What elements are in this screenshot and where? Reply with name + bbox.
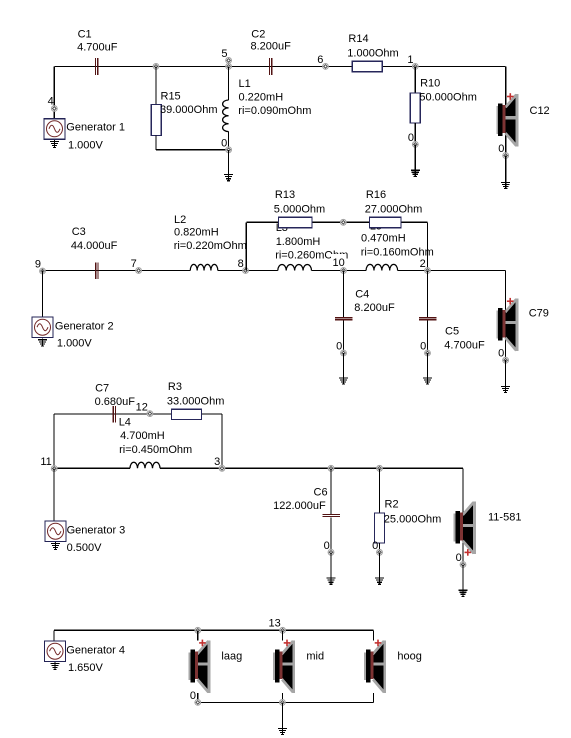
value label 122.000uF (C6): [273, 500, 326, 512]
node 0 under C6: [328, 549, 334, 555]
svg-text:1.000Ohm: 1.000Ohm: [347, 48, 398, 60]
svg-text:Generator 3: Generator 3: [67, 525, 126, 537]
value label 8.200uF (C2): [251, 41, 292, 53]
node label 8: [238, 258, 244, 270]
ground under generator 3: [51, 542, 60, 550]
label Generator 3: [67, 525, 126, 537]
svg-text:0.680uF: 0.680uF: [95, 396, 136, 408]
svg-text:C3: C3: [72, 226, 86, 238]
label C5: [445, 326, 459, 338]
value label 0.680uF (C7): [95, 396, 136, 408]
resistor R14: [352, 61, 382, 71]
wire hoog top: [372, 630, 374, 640]
svg-text:1.650V: 1.650V: [68, 662, 104, 674]
resistor R3: [172, 409, 202, 419]
svg-text:5.000Ohm: 5.000Ohm: [274, 204, 325, 216]
wire speaker C79 riser: [505, 271, 507, 361]
svg-text:50.000Ohm: 50.000Ohm: [419, 91, 476, 103]
label R15: [161, 91, 181, 103]
svg-text:1: 1: [407, 54, 413, 66]
label L4: [119, 417, 131, 429]
value label 1.000V (gen2): [57, 338, 93, 350]
svg-text:C6: C6: [314, 486, 328, 498]
inductor L1: [223, 100, 229, 132]
svg-text:ri=0.160mOhm: ri=0.160mOhm: [361, 246, 434, 258]
node 0 under C12: [503, 153, 509, 159]
label 11-581: [488, 512, 521, 524]
node 3: [219, 465, 225, 471]
value label 4.700mH (L4): [120, 430, 165, 442]
wire row3 main horizontal net: [54, 467, 463, 469]
svg-text:4.700uF: 4.700uF: [444, 339, 485, 351]
resistor R15: [151, 105, 161, 136]
label mid: [306, 651, 324, 663]
svg-text:12: 12: [136, 401, 148, 413]
wire C6 bottom: [330, 517, 332, 552]
svg-text:27.000Ohm: 27.000Ohm: [365, 204, 422, 216]
svg-text:0.500V: 0.500V: [67, 542, 103, 554]
node 7: [136, 268, 142, 274]
speaker laag: [189, 640, 211, 693]
svg-text:R10: R10: [420, 78, 440, 90]
label Generator 4: [66, 645, 125, 657]
node 8: [243, 268, 249, 274]
wire C5 bottom: [427, 321, 429, 353]
node label 0 (C5): [420, 341, 426, 353]
svg-text:Generator 4: Generator 4: [66, 645, 125, 657]
value label 1.800mH (L3): [276, 236, 321, 248]
wire C4 bottom: [343, 321, 345, 353]
label L1: [239, 78, 251, 90]
node label 0 (R10 bottom): [408, 132, 414, 144]
svg-text:C1: C1: [78, 28, 92, 40]
node 0 under laag: [195, 700, 201, 706]
svg-text:11-581: 11-581: [488, 512, 521, 524]
label hoog: [397, 651, 421, 663]
svg-text:33.000Ohm: 33.000Ohm: [167, 396, 224, 408]
value label 44.000uF (C3): [71, 240, 118, 252]
node label 11: [40, 456, 51, 468]
value label ri=0.260mOhm (L3): [275, 249, 348, 261]
wire R2 bottom: [379, 543, 381, 552]
label C3: [72, 226, 86, 238]
value label 25.000Ohm (R2): [384, 514, 441, 526]
node 0 under 11-581: [460, 562, 466, 568]
node label 9: [35, 259, 41, 271]
node label 6: [317, 54, 323, 66]
svg-text:39.000Ohm: 39.000Ohm: [160, 104, 217, 116]
generator U4 Generator 4: [45, 641, 66, 662]
ground under C5: [423, 377, 432, 385]
wire R15 bottom to node 0: [156, 136, 229, 150]
svg-text:ri=0.220mOhm: ri=0.220mOhm: [174, 240, 247, 252]
capacitor C7: [113, 406, 116, 423]
ground under generator 2: [38, 338, 47, 346]
wire to ground (11-581): [462, 565, 464, 591]
node label 2: [420, 258, 426, 270]
node label 4: [48, 96, 54, 108]
node label 0 (C12 bottom): [498, 143, 504, 155]
resistor R13: [279, 217, 313, 227]
wire gen2 riser: [42, 271, 44, 318]
wire to ground (row4): [281, 702, 283, 728]
wire riser node8 to R13 rail: [245, 222, 247, 270]
label C7: [95, 383, 109, 395]
svg-text:122.000uF: 122.000uF: [273, 500, 326, 512]
value label 8.200uF (C4): [354, 302, 395, 314]
svg-text:13: 13: [269, 618, 281, 630]
node label 5: [221, 48, 227, 60]
label L3 (partially hidden): [276, 222, 288, 234]
value label ri=0.160mOhm (L5): [361, 246, 434, 258]
svg-text:5: 5: [221, 48, 227, 60]
svg-text:8.200uF: 8.200uF: [251, 41, 292, 53]
resistor R2: [375, 513, 385, 543]
speaker mid: [273, 640, 295, 693]
label C4: [355, 289, 369, 301]
wire to ground (C79): [505, 360, 507, 386]
svg-text:4.700mH: 4.700mH: [120, 430, 165, 442]
wire gen3 riser: [53, 468, 55, 521]
wire row3 upper branch: [54, 413, 222, 415]
wire R10 top: [414, 66, 416, 93]
wire laag top: [197, 630, 199, 640]
node 0 under C5: [425, 350, 431, 356]
svg-text:R16: R16: [366, 189, 386, 201]
svg-text:ri=0.450mOhm: ri=0.450mOhm: [119, 444, 192, 456]
wire C6 top: [330, 468, 332, 514]
wire to ground (L1): [228, 150, 230, 175]
node label 13: [269, 618, 281, 630]
wire R13/R16 top rail: [246, 221, 427, 223]
svg-text:C4: C4: [355, 289, 369, 301]
value label 50.000Ohm (R10): [419, 91, 476, 103]
svg-text:L2: L2: [174, 214, 186, 226]
label C2: [251, 29, 265, 41]
node 11: [51, 466, 57, 472]
node label 0 (laag): [190, 690, 196, 702]
ground under generator 4: [51, 662, 60, 670]
svg-text:3: 3: [214, 456, 220, 468]
label L2: [174, 214, 186, 226]
svg-text:Generator 1: Generator 1: [66, 121, 125, 133]
label C12: [530, 105, 550, 117]
node label 0 (11-581): [456, 552, 462, 564]
wire gen4 riser: [53, 630, 55, 641]
label C6: [314, 486, 328, 498]
label C1: [78, 28, 92, 40]
ground under R2: [375, 577, 384, 585]
wire R15 top: [155, 66, 157, 104]
wire row3 upper-left riser: [53, 414, 55, 468]
wire to ground (R2): [379, 552, 381, 578]
node label 0 (L1 bottom): [221, 137, 227, 149]
wire mid bottom: [281, 693, 283, 703]
svg-text:C5: C5: [445, 326, 459, 338]
node label 0 (C4): [336, 341, 342, 353]
svg-text:0.470mH: 0.470mH: [361, 232, 406, 244]
ground under 11-581: [459, 589, 468, 597]
node 12: [147, 411, 153, 417]
value label 5.000Ohm (R13): [274, 204, 325, 216]
value label ri=0.450mOhm (L4): [119, 444, 192, 456]
inductor L2: [190, 264, 218, 274]
label R13: [275, 189, 295, 201]
svg-text:7: 7: [131, 258, 137, 270]
value label 33.000Ohm (R3): [167, 396, 224, 408]
wire to ground (C5): [427, 353, 429, 378]
node 0 under L1: [226, 147, 232, 153]
generator U3 Generator 3: [45, 521, 66, 542]
label laag: [221, 651, 242, 663]
ground row4: [278, 727, 287, 735]
label L5 (partially hidden): [370, 221, 382, 233]
wire C5 top: [427, 271, 429, 318]
wire to ground (R10): [414, 144, 416, 170]
node 1: [412, 64, 418, 70]
capacitor C2: [269, 58, 272, 75]
wire riser R3 to node 3: [221, 414, 223, 468]
svg-text:mid: mid: [306, 651, 324, 663]
node under mid bottom: [280, 700, 286, 706]
node 5: [226, 64, 232, 70]
wire riser R16 to node 2: [427, 222, 429, 270]
value label 1.000V (gen1): [68, 139, 104, 151]
wire row4 bottom rail: [198, 701, 374, 703]
svg-text:1.800mH: 1.800mH: [276, 236, 321, 248]
value label 1.650V (gen4): [68, 662, 104, 674]
value label 0.470mH (L5): [361, 232, 406, 244]
speaker C12: [496, 93, 518, 146]
wire to ground (C4): [343, 353, 345, 378]
node 5 upper circle: [226, 58, 232, 64]
label R16: [366, 189, 386, 201]
capacitor C4: [335, 317, 353, 320]
label R2: [385, 498, 399, 510]
svg-text:C2: C2: [251, 29, 265, 41]
node 4: [51, 106, 57, 112]
capacitor C1: [95, 58, 98, 75]
speaker hoog: [364, 640, 386, 693]
svg-text:R15: R15: [161, 91, 181, 103]
svg-text:0: 0: [190, 690, 196, 702]
label R10: [420, 78, 440, 90]
node 0 under C4: [341, 350, 347, 356]
ground under C4: [339, 377, 348, 385]
speaker 11-581: [454, 502, 476, 556]
generator U2 Generator 2: [32, 317, 53, 338]
resistor R16: [370, 217, 402, 227]
svg-text:0.220mH: 0.220mH: [239, 92, 284, 104]
label R14: [348, 33, 368, 45]
ground under C12: [501, 181, 510, 189]
wire L1 top: [228, 66, 230, 100]
wire row4 top rail: [54, 629, 373, 631]
svg-text:C12: C12: [530, 105, 550, 117]
node label 0 (R2): [372, 540, 378, 552]
wire to ground (C6): [330, 552, 332, 578]
node label 3: [214, 456, 220, 468]
node 2: [425, 268, 431, 274]
svg-text:8: 8: [238, 258, 244, 270]
wire row1 main horizontal net: [54, 65, 505, 67]
svg-text:C7: C7: [95, 383, 109, 395]
speaker C79: [496, 298, 518, 351]
svg-text:hoog: hoog: [397, 651, 421, 663]
svg-text:9: 9: [35, 259, 41, 271]
svg-text:1.000V: 1.000V: [68, 139, 104, 151]
node junction above R2: [377, 465, 383, 471]
svg-text:ri=0.090mOhm: ri=0.090mOhm: [238, 105, 311, 117]
node junction between R13 and R16: [340, 219, 346, 225]
node 0 under C79: [503, 357, 509, 363]
svg-text:4: 4: [48, 96, 54, 108]
ground under C79: [501, 385, 510, 393]
value label 0.820mH (L2): [174, 227, 219, 239]
wire R10 bottom: [414, 123, 416, 144]
wire hoog bottom: [372, 693, 374, 703]
capacitor C3: [95, 262, 98, 279]
node label 0 (C6): [324, 540, 330, 552]
label R3: [168, 381, 182, 393]
wire row1 left riser to generator: [53, 66, 55, 118]
value label 4.700uF (C1): [77, 42, 118, 54]
svg-text:Generator 2: Generator 2: [55, 321, 114, 333]
node 6: [323, 64, 329, 70]
svg-text:6: 6: [317, 54, 323, 66]
capacitor C5: [419, 317, 437, 320]
node label 10 (with background): [331, 254, 346, 269]
node above laag: [195, 627, 201, 633]
value label ri=0.090mOhm (L1): [238, 105, 311, 117]
svg-text:44.000uF: 44.000uF: [71, 240, 118, 252]
wire speaker C12 riser: [505, 66, 507, 155]
ground under C6: [327, 577, 336, 585]
svg-text:C79: C79: [529, 308, 549, 320]
wire L1 bottom: [228, 132, 230, 150]
svg-text:R13: R13: [275, 189, 295, 201]
ground under L1: [224, 173, 233, 181]
svg-text:L4: L4: [119, 417, 131, 429]
generator U1 Generator 1: [44, 119, 65, 140]
svg-text:4.700uF: 4.700uF: [77, 42, 118, 54]
wire C4 top: [343, 271, 345, 318]
svg-text:8.200uF: 8.200uF: [354, 302, 395, 314]
label C79: [529, 308, 549, 320]
node 0 under R2: [377, 549, 383, 555]
svg-text:R3: R3: [168, 381, 182, 393]
resistor R10: [410, 93, 420, 123]
value label 1.000Ohm (R14): [347, 48, 398, 60]
ground under generator 1: [50, 140, 59, 148]
wire R2 top: [379, 468, 381, 513]
svg-text:1.000V: 1.000V: [57, 338, 93, 350]
node label 7: [131, 258, 137, 270]
label Generator 2: [55, 321, 114, 333]
wire to ground (C12): [505, 156, 507, 183]
inductor L5 coil 0.470mH: [366, 264, 398, 274]
svg-text:L1: L1: [239, 78, 251, 90]
svg-text:laag: laag: [221, 651, 242, 663]
svg-text:R14: R14: [348, 33, 368, 45]
ground under R10: [411, 169, 420, 177]
svg-text:2: 2: [420, 258, 426, 270]
label Generator 1: [66, 121, 125, 133]
node label 12: [136, 401, 148, 413]
wire laag bottom: [197, 693, 199, 703]
value label ri=0.220mOhm (L2): [174, 240, 247, 252]
svg-text:11: 11: [40, 456, 51, 468]
node 13: [280, 627, 286, 633]
inductor L4: [130, 462, 160, 472]
node label 1: [407, 54, 413, 66]
wire mid top: [281, 630, 283, 640]
value label 4.700uF (C5): [444, 339, 485, 351]
value label 0.500V (gen3): [67, 542, 103, 554]
inductor L3 coil 1.800mH: [278, 264, 312, 274]
capacitor C6: [322, 514, 340, 517]
node junction above C6: [328, 465, 334, 471]
node junction R15/top wire: [153, 64, 159, 70]
svg-text:0.820mH: 0.820mH: [174, 227, 219, 239]
node 0 under R10: [412, 142, 418, 148]
svg-text:25.000Ohm: 25.000Ohm: [384, 514, 441, 526]
value label 39.000Ohm (R15): [160, 104, 217, 116]
value label 27.000Ohm (R16): [365, 204, 422, 216]
value label 0.220mH (L1): [239, 92, 284, 104]
wire speaker 11-581 riser: [462, 468, 464, 564]
node 10: [341, 268, 347, 274]
svg-text:R2: R2: [385, 498, 399, 510]
wire row2 main horizontal net: [43, 270, 506, 272]
node 9: [40, 268, 46, 274]
node label 0 (C79): [498, 348, 504, 360]
